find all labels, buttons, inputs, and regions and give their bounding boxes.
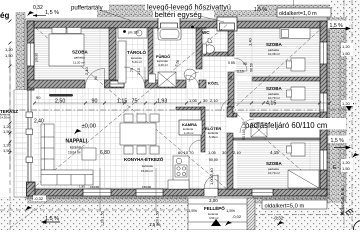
spine wall — [228, 28, 234, 56]
svg-text:±0,00: ±0,00 — [82, 124, 96, 130]
top wall units — [158, 17, 237, 31]
svg-text:19,04 m²: 19,04 m² — [68, 151, 81, 155]
windows bottom wall — [27, 42, 327, 196]
outer wall bottom — [27, 189, 327, 196]
window left wall — [27, 43, 34, 66]
svg-text:5 85: 5 85 — [228, 61, 235, 65]
svg-text:2,10: 2,10 — [84, 66, 89, 75]
door arcs — [85, 58, 254, 152]
svg-text:-0,32: -0,32 — [34, 196, 44, 201]
wall tarolo/furdo — [148, 28, 153, 83]
svg-text:1,5%: 1,5% — [188, 208, 198, 213]
svg-text:90: 90 — [92, 99, 98, 105]
svg-text:1,5 %: 1,5 % — [45, 216, 59, 222]
svg-text:padlásfeljáró 60/110 cm: padlásfeljáró 60/110 cm — [245, 121, 327, 130]
floors — [15, 28, 320, 230]
bed r3 — [288, 170, 319, 188]
svg-text:90: 90 — [36, 95, 41, 100]
desk r1 — [291, 58, 305, 71]
svg-text:pm 180: pm 180 — [196, 27, 207, 31]
furniture: bed szoba1 — [41, 28, 319, 190]
svg-text:1,20: 1,20 — [342, 44, 351, 49]
svg-text:5,21 m²: 5,21 m² — [132, 60, 142, 64]
wall furdo/wc — [196, 28, 202, 69]
svg-text:0,32: 0,32 — [33, 5, 43, 11]
svg-text:pm 90: pm 90 — [35, 53, 39, 62]
svg-text:50,00: 50,00 — [209, 158, 218, 162]
wall r1/r2 — [252, 77, 320, 81]
svg-text:SZOBA: SZOBA — [266, 42, 283, 47]
svg-text:60 10 70: 60 10 70 — [178, 150, 194, 155]
terrace slab — [14, 90, 28, 197]
svg-text:2,50: 2,50 — [55, 99, 65, 105]
svg-text:oldalkert=1,0 m: oldalkert=1,0 m — [279, 11, 317, 17]
tick marks mid chain — [9, 20, 332, 155]
outer wall right — [320, 21, 327, 196]
porch triangle — [211, 219, 221, 226]
corner circle marker — [354, 221, 360, 238]
kamra walls — [176, 107, 204, 110]
svg-text:30: 30 — [203, 98, 208, 103]
svg-text:kerámia: kerámia — [70, 146, 82, 150]
dining table — [120, 123, 156, 145]
svg-text:1,20: 1,20 — [5, 47, 14, 52]
coffee table — [82, 148, 96, 160]
svg-text:10,79 m²: 10,79 m² — [268, 96, 280, 100]
roof diagonal dashed lines — [31, 24, 324, 190]
interior walls — [28, 28, 320, 189]
svg-text:KÖZL: KÖZL — [208, 81, 219, 86]
attic hatch — [251, 123, 267, 137]
svg-text:pm 180: pm 180 — [128, 31, 139, 35]
svg-text:11,20 m²: 11,20 m² — [73, 61, 85, 65]
shower — [158, 72, 176, 87]
porch fellepo — [188, 198, 255, 230]
corner diagonal dashed — [330, 199, 344, 213]
section line A-A — [8, 109, 352, 111]
wall corridor/r3 thin — [233, 138, 320, 140]
desk r3 — [291, 143, 305, 156]
witness lines — [10, 0, 344, 189]
svg-text:30: 30 — [222, 150, 227, 155]
svg-text:14,50m²: 14,50m² — [0, 116, 10, 120]
svg-text:1,20 m²: 1,20 m² — [184, 131, 194, 135]
dimension chain mid y103 — [10, 40, 340, 222]
svg-text:TÁROLÓ: TÁROLÓ — [127, 48, 146, 55]
cased opening south wall — [110, 81, 124, 87]
svg-text:1,5 %: 1,5 % — [330, 23, 344, 29]
tarolo shelf — [118, 28, 147, 38]
stipple band right — [327, 17, 346, 203]
svg-text:90: 90 — [94, 76, 98, 80]
windows right wall — [320, 42, 327, 64]
svg-text:150/90: 150/90 — [142, 185, 152, 189]
svg-text:4,15: 4,15 — [270, 150, 279, 155]
radiator — [49, 94, 73, 97]
leaders — [100, 10, 224, 22]
svg-text:beltéri egység: beltéri egység — [155, 10, 202, 19]
desk r2 — [291, 87, 305, 100]
svg-text:4,40 m²: 4,40 m² — [158, 63, 168, 67]
bathtub — [158, 28, 181, 40]
svg-text:90 100 1,15: 90 100 1,15 — [242, 121, 246, 140]
wall r2/corridor — [233, 113, 237, 117]
wc south wall — [201, 52, 228, 56]
svg-text:6,80: 6,80 — [100, 150, 110, 156]
svg-text:SZOBA: SZOBA — [266, 161, 283, 166]
svg-text:1,40: 1,40 — [248, 37, 253, 46]
band border lines — [16, 5, 346, 203]
sofa — [41, 124, 54, 170]
bed r1 — [280, 28, 310, 39]
outer wall left upper — [27, 21, 34, 90]
svg-text:-0,32: -0,32 — [273, 216, 284, 221]
south wall of top rooms segments — [28, 80, 85, 88]
door leaf and arc — [217, 175, 219, 189]
right dims — [341, 43, 353, 56]
svg-text:1,05: 1,05 — [189, 98, 198, 103]
svg-text:WC: WC — [202, 30, 210, 35]
svg-text:10,38 m²: 10,38 m² — [268, 52, 280, 56]
outer wall top — [27, 21, 328, 196]
svg-text:4,59 m²: 4,59 m² — [209, 216, 219, 220]
svg-text:15,84 m²: 15,84 m² — [141, 169, 153, 173]
svg-text:oldalkert=5,0 m: oldalkert=5,0 m — [265, 204, 305, 210]
svg-text:90: 90 — [243, 62, 247, 66]
svg-text:1,90: 1,90 — [79, 185, 85, 189]
svg-text:1,50: 1,50 — [342, 51, 351, 56]
slope arrows — [33, 14, 350, 223]
svg-text:2,10: 2,10 — [210, 98, 219, 103]
section marker triangle — [344, 103, 354, 111]
svg-text:1,5 %: 1,5 % — [254, 7, 267, 13]
washbasin bathroom — [184, 69, 196, 80]
svg-text:90 50: 90 50 — [250, 63, 254, 72]
svg-text:75: 75 — [132, 99, 138, 105]
svg-text:SZOBA: SZOBA — [266, 86, 283, 91]
svg-text:SZOBA: SZOBA — [72, 49, 89, 54]
svg-text:2,10: 2,10 — [137, 68, 141, 75]
glass wall west (terrace) — [26, 90, 33, 183]
svg-text:NAPPALI: NAPPALI — [66, 139, 88, 145]
stipple band left — [16, 12, 25, 95]
wc toilet — [205, 45, 215, 53]
svg-text:1,20 1,50: 1,20 1,50 — [101, 211, 105, 226]
svg-text:1,20: 1,20 — [342, 160, 351, 165]
svg-text:ég: ég — [0, 11, 9, 20]
svg-text:2,40: 2,40 — [34, 119, 44, 125]
svg-text:1,20 1,50: 1,20 1,50 — [156, 211, 160, 226]
svg-text:KONYHA-ÉTKEZŐ: KONYHA-ÉTKEZŐ — [124, 155, 164, 162]
svg-text:2,10: 2,10 — [237, 70, 244, 74]
svg-text:4,15: 4,15 — [266, 101, 276, 107]
svg-text:1,50: 1,50 — [342, 166, 351, 171]
svg-text:1,20: 1,20 — [342, 101, 351, 106]
padlasfeljaro — [296, 118, 346, 130]
svg-text:10,79 m²: 10,79 m² — [268, 171, 280, 175]
svg-text:90: 90 — [229, 76, 233, 80]
svg-text:1,05: 1,05 — [208, 150, 217, 155]
svg-text:1,00 2,40: 1,00 2,40 — [209, 168, 214, 185]
svg-text:1,20: 1,20 — [3, 143, 12, 148]
plinth outline — [25, 19, 329, 198]
svg-text:75: 75 — [130, 68, 134, 72]
kitchen counter — [173, 156, 189, 189]
svg-text:1,50: 1,50 — [3, 148, 12, 153]
ground dot field right — [331, 0, 360, 230]
outer wall left lower stub — [27, 182, 36, 196]
svg-text:1,50: 1,50 — [5, 53, 14, 58]
entrance door opening — [204, 189, 218, 196]
svg-text:parketta: parketta — [74, 56, 85, 60]
svg-text:1,5 %: 1,5 % — [45, 10, 59, 16]
svg-text:puffertartály: puffertartály — [71, 6, 103, 12]
svg-text:1,93: 1,93 — [157, 99, 167, 105]
svg-text:FELLÉPŐ: FELLÉPŐ — [204, 204, 225, 211]
stipple band top — [97, 5, 330, 17]
ground dot field bottom — [0, 197, 360, 230]
svg-text:2,10: 2,10 — [233, 150, 242, 155]
svg-text:3,00: 3,00 — [209, 198, 218, 203]
svg-text:150/90: 150/90 — [90, 185, 100, 189]
svg-text:1,5%: 1,5% — [226, 208, 236, 213]
eloter east wall segments — [227, 107, 233, 117]
svg-text:5,36m²: 5,36m² — [209, 135, 218, 139]
wall szoba1/tarolo — [109, 28, 116, 80]
svg-text:1,5 %: 1,5 % — [331, 138, 345, 144]
svg-text:1,50: 1,50 — [3, 129, 12, 134]
bottom annotations — [33, 196, 46, 202]
svg-text:kerámia: kerámia — [142, 164, 153, 168]
svg-text:elökert=5,0 m: elökert=5,0 m — [340, 187, 345, 215]
svg-text:-0,02: -0,02 — [232, 214, 242, 219]
svg-text:1,15: 1,15 — [117, 99, 127, 105]
stipple band bottom — [27, 196, 188, 203]
